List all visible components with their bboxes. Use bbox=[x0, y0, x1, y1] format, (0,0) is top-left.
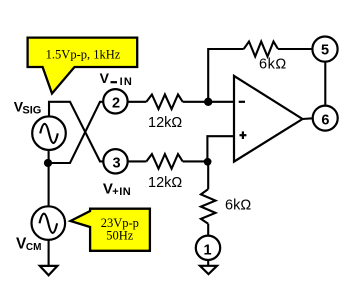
svg-text:CM: CM bbox=[26, 242, 42, 253]
svg-text:50Hz: 50Hz bbox=[106, 229, 134, 243]
svg-text:6kΩ: 6kΩ bbox=[225, 197, 251, 213]
svg-text:5: 5 bbox=[321, 43, 329, 59]
svg-text:6kΩ: 6kΩ bbox=[259, 57, 287, 73]
svg-text:1.5Vp-p, 1kHz: 1.5Vp-p, 1kHz bbox=[46, 47, 121, 61]
svg-text:12kΩ: 12kΩ bbox=[148, 115, 182, 131]
svg-text:+IN: +IN bbox=[112, 186, 131, 198]
svg-text:SIG: SIG bbox=[22, 104, 41, 116]
svg-text:12kΩ: 12kΩ bbox=[148, 175, 182, 191]
svg-text:1: 1 bbox=[204, 242, 212, 258]
svg-text:6: 6 bbox=[321, 112, 329, 128]
svg-text:IN: IN bbox=[120, 76, 133, 88]
svg-text:3: 3 bbox=[113, 156, 121, 172]
svg-text:2: 2 bbox=[112, 95, 120, 111]
svg-text:V: V bbox=[100, 70, 110, 86]
